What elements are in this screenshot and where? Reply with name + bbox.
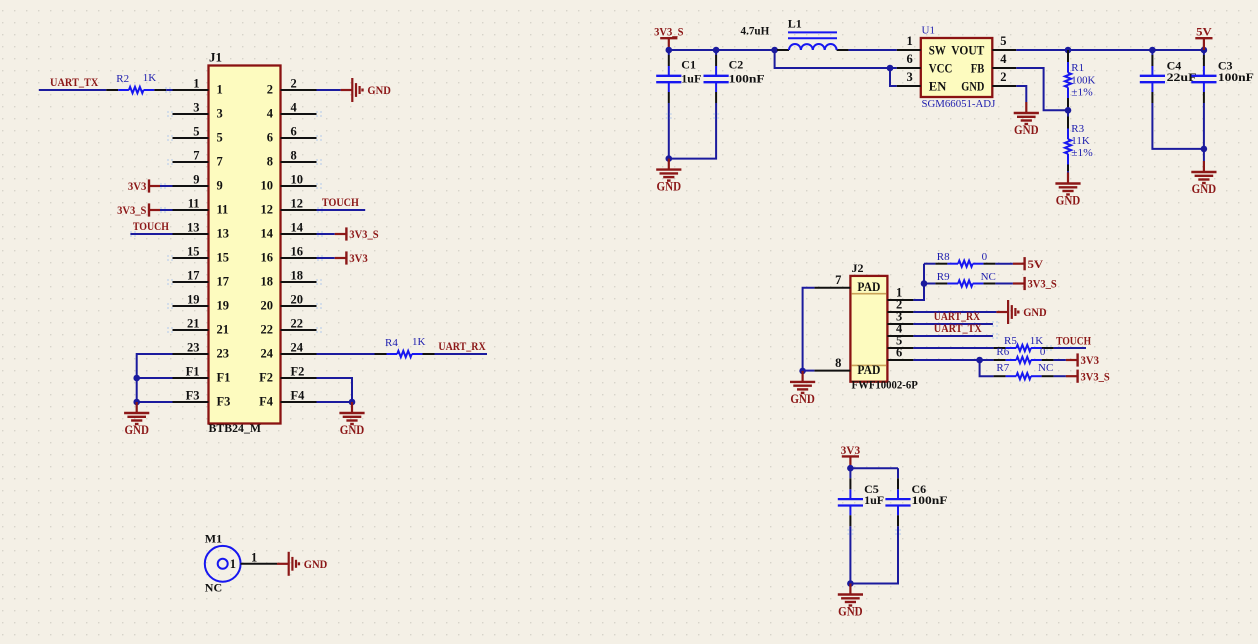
svg-text:GND: GND [1014,123,1039,137]
svg-text:GND: GND [790,392,815,406]
svg-text:R8: R8 [937,251,950,263]
svg-text:GND: GND [304,557,328,571]
svg-text:6: 6 [896,346,902,360]
wire R5 to TOUCH [1054,347,1086,349]
J1 pin F4 (right) [259,388,316,408]
J1 pin 21 (left) [173,316,230,336]
resistor R7 [994,373,1054,379]
capacitor C4 [1140,55,1165,103]
junction rail/C2 [713,47,720,54]
J1 pin 9 (left) [173,172,223,192]
wire R2 to J1 pin1 [166,89,172,91]
svg-text:R3: R3 [1071,123,1084,135]
svg-text:3V3: 3V3 [1081,353,1100,367]
wire C1 bottom to GND rail [668,103,670,159]
svg-text:18: 18 [291,268,304,282]
svg-text:1uF: 1uF [864,493,884,507]
wire J1 pin2 to GND [317,89,341,91]
capacitor C5 [838,478,863,526]
svg-text:R1: R1 [1071,62,1084,74]
svg-text:GND: GND [961,79,984,93]
svg-text:19: 19 [217,299,230,313]
svg-text:1: 1 [217,83,223,97]
svg-text:1uF: 1uF [681,72,701,86]
wire TOUCH to J1 pin13 [130,233,172,235]
svg-text:0: 0 [1040,346,1046,358]
J1 pin 7 (left) [173,148,223,168]
svg-text:16: 16 [261,251,274,265]
svg-text:NC: NC [1038,362,1053,374]
svg-text:3: 3 [907,70,913,84]
svg-text:FB: FB [971,61,985,75]
svg-text:UART_TX: UART_TX [50,75,99,89]
ground GND at J2 pin2 (bar style) [996,300,1047,324]
svg-text:R7: R7 [996,362,1009,374]
junction at F3 [133,399,140,406]
svg-text:2: 2 [1000,70,1006,84]
svg-text:NC: NC [205,580,222,594]
svg-text:23: 23 [217,347,230,361]
wire C3 bottom [1203,103,1205,161]
junction at F1 [133,375,140,382]
U1 pin 2 GND [961,70,1016,93]
svg-text:1: 1 [193,76,199,90]
ground GND below C3 [1191,161,1216,196]
svg-text:4.7uH: 4.7uH [741,24,770,38]
J2 pin 2 [887,298,913,312]
svg-text:M1: M1 [205,532,222,546]
svg-text:U1: U1 [922,25,935,37]
capacitor C2 [704,55,729,103]
connector J1 body [209,66,281,424]
svg-text:1: 1 [230,557,236,571]
J1 pin 13 (left) [173,220,230,240]
svg-text:±1%: ±1% [1071,147,1092,159]
ground GND at M1 (bar style) [277,552,328,576]
svg-text:PAD: PAD [857,363,880,377]
wire J2 pin5 to R5 [913,347,993,349]
wire J2 pin3 UART_RX [913,323,993,325]
svg-text:TOUCH: TOUCH [133,219,170,233]
svg-text:1K: 1K [412,336,426,348]
wire R9 to 3V3_S [995,283,1013,285]
power port 5V at R8 [1013,257,1044,271]
svg-text:F1: F1 [186,364,200,378]
power port 3V3 at J1 pin16 [335,251,368,265]
power port 3V3 at C5 [841,443,861,468]
capacitor C6 [885,478,910,526]
svg-text:F3: F3 [217,395,231,409]
svg-text:19: 19 [187,292,200,306]
U1 pin 6 VCC [897,52,953,75]
J1 pin 20 (right) [261,292,317,312]
svg-text:PAD: PAD [857,280,880,294]
capacitor C3 [1191,55,1216,103]
wire 3V3_S to J1 pin11 [160,209,173,211]
svg-text:3: 3 [193,100,199,114]
svg-text:21: 21 [187,316,200,330]
svg-text:6: 6 [291,124,297,138]
junction C3/C4 gnd node [1201,146,1208,153]
svg-text:F1: F1 [217,371,231,385]
svg-text:GND: GND [1023,305,1047,319]
svg-text:11: 11 [188,196,200,210]
U1 pin 4 FB [971,52,1017,75]
junction rail/5V [1201,47,1208,54]
junction C1/GND [666,155,673,162]
junction C5/GND [847,580,854,587]
resistor R6 [994,357,1054,363]
J2 pin 1 [887,286,913,300]
junction rail/C4 [1149,47,1156,54]
svg-text:±1%: ±1% [1071,86,1092,98]
svg-text:GND: GND [1192,182,1217,196]
J1 pin 4 (right) [267,100,317,120]
svg-text:22: 22 [291,316,304,330]
J2 pin 6 [887,346,913,360]
J2 pin 4 [887,322,913,336]
J1 pin F1 (left) [173,364,231,384]
wire C2 bottom elbow [669,103,716,159]
svg-text:2: 2 [267,83,273,97]
svg-text:TOUCH: TOUCH [1056,334,1092,348]
svg-text:20: 20 [291,292,304,306]
svg-text:17: 17 [187,268,200,282]
wire riser to R9 [924,283,935,285]
resistor R5 [994,345,1054,351]
J1 pin 14 (right) [261,220,317,240]
J1 pin 3 (left) [173,100,223,120]
svg-text:UART_RX: UART_RX [438,339,486,353]
svg-text:13: 13 [187,220,200,234]
J1 pin 19 (left) [173,292,230,312]
wire UART_TX to R2 [39,89,106,91]
resistor R1 [1065,50,1071,110]
ground GND below C5/C6 [838,584,863,619]
svg-text:F4: F4 [259,395,274,409]
svg-text:5: 5 [193,124,199,138]
svg-text:24: 24 [291,340,304,354]
J1 pin 10 (right) [261,172,317,192]
junction VCC branch [887,65,894,72]
svg-text:F2: F2 [259,371,273,385]
svg-text:9: 9 [193,172,199,186]
svg-text:1K: 1K [143,72,157,84]
wire C6 bottom elbow [850,526,898,583]
wire F3 stub [137,401,173,403]
svg-text:12: 12 [291,196,304,210]
svg-text:8: 8 [291,148,297,162]
wire J2 pin2 to GND [913,311,996,313]
junction R1/R3 feedback node [1065,107,1072,114]
J1 pin 15 (left) [173,244,230,264]
wire F4 stub [317,401,353,403]
wire R4 to UART_RX [435,353,488,355]
junction rail/C1 [666,47,673,54]
wire R6 to 3V3 [1054,359,1066,361]
ground GND at J1 pin2 (bar style) [341,78,392,102]
svg-text:3V3_S: 3V3_S [654,25,684,39]
wire J1 pin23/F1/F3 to GND [137,354,173,402]
svg-text:6: 6 [907,52,913,66]
svg-text:SGM66051-ADJ: SGM66051-ADJ [922,98,996,110]
svg-text:UART_TX: UART_TX [934,321,982,335]
svg-text:5: 5 [1000,34,1006,48]
wire R7 branch riser [980,360,994,376]
svg-text:1: 1 [907,34,913,48]
wire C5 bottom [849,526,851,583]
svg-text:VCC: VCC [929,61,953,75]
power port 5V (output rail) [1195,25,1212,50]
J1 pin 18 (right) [261,268,317,288]
svg-text:SW: SW [929,43,946,57]
inductor L1 [777,32,849,50]
svg-text:4: 4 [291,100,298,114]
svg-text:12: 12 [261,203,274,217]
svg-text:EN: EN [929,79,947,93]
svg-text:3V3: 3V3 [349,251,368,265]
svg-text:0: 0 [982,251,988,263]
power port 3V3_S at R7 [1066,369,1110,383]
svg-text:11: 11 [217,203,229,217]
wire 3V3 rail to C6 [850,467,898,469]
svg-text:7: 7 [217,155,223,169]
ground GND below R3 [1055,173,1080,208]
svg-text:3: 3 [217,107,223,121]
svg-text:C1: C1 [681,58,696,72]
J1 pin F3 (left) [173,388,231,408]
J1 pin 22 (right) [261,316,317,336]
svg-text:2: 2 [291,76,297,90]
svg-text:3V3_S: 3V3_S [1028,277,1058,291]
svg-text:14: 14 [261,227,274,241]
wire R1 to R3 [1067,110,1069,116]
wire J2 pin4 UART_TX [913,335,993,337]
wire 3V3 to J1 pin9 [160,185,173,187]
J2 pin 3 [887,310,913,324]
svg-text:J2: J2 [852,261,864,275]
power port 3V3_S at J1 pin11 [117,203,160,217]
capacitor C1 [656,55,681,103]
svg-text:14: 14 [291,220,304,234]
svg-text:18: 18 [261,275,274,289]
svg-text:11K: 11K [1071,135,1090,147]
svg-text:GND: GND [340,423,365,437]
ground GND below C1/C2 [656,159,681,194]
svg-text:24: 24 [261,347,274,361]
svg-text:10: 10 [261,179,274,193]
wire J2 pin6 to R6 [913,359,993,361]
wire C6 top elbow [897,468,899,478]
svg-text:3V3: 3V3 [841,443,861,457]
ground GND below J1 right [339,402,364,437]
wire J1 pin16 to 3V3 [317,257,335,259]
U1 pin 1 SW [897,34,946,57]
J1 pin 23 (left) [173,340,230,360]
svg-text:3V3_S: 3V3_S [1081,369,1111,383]
svg-text:100nF: 100nF [912,493,948,507]
ground GND at U1 pin2 [1014,102,1039,137]
J1 pin 2 (right) [267,76,317,96]
wire J2 pin8 stub [803,370,815,372]
junction rail/VCC branch [771,47,778,54]
svg-text:23: 23 [187,340,200,354]
power port 3V3 at R6 [1066,353,1099,367]
J1 pin 11 (left) [173,196,229,216]
svg-text:FWF10002-6P: FWF10002-6P [852,377,918,391]
svg-text:5V: 5V [1196,25,1212,39]
svg-text:20: 20 [261,299,274,313]
wire J1 pin24 to R4 [317,353,375,355]
svg-text:GND: GND [1056,194,1081,208]
svg-text:6: 6 [267,131,273,145]
svg-text:F3: F3 [186,388,200,402]
svg-text:100nF: 100nF [729,72,765,86]
power port 3V3_S at J1 pin14 [335,227,379,241]
wire L1 to U1 SW [849,49,897,51]
junction R6/R7 [976,357,983,364]
compile marks (decorative) [130,87,1052,535]
resistor R9 [935,280,995,286]
svg-text:4: 4 [1000,52,1007,66]
svg-text:R4: R4 [385,337,398,349]
wire U1 GND pin2 [1016,86,1026,102]
svg-text:R6: R6 [996,346,1009,358]
svg-text:3V3: 3V3 [128,179,147,193]
svg-text:15: 15 [217,251,230,265]
power port 3V3 at J1 pin9 [128,179,160,193]
ground GND below J1 left [124,402,149,437]
wire C5 top [849,468,851,478]
svg-text:BTB24_M: BTB24_M [209,421,262,435]
wire EN branch [890,68,897,86]
svg-text:100nF: 100nF [1218,70,1254,84]
wire R8 to 5V [995,263,1013,265]
wire F2 to F4 elbow [317,378,353,402]
J2 body divider bottom [852,364,886,366]
J1 pin 17 (left) [173,268,230,288]
svg-text:15: 15 [187,244,200,258]
junction at F4 [349,399,356,406]
J2 pin 7 PAD [814,273,880,294]
wire J2 pin1 riser to R8/R9 [913,264,924,300]
resistor R4 [375,351,435,357]
J2 pin 5 [887,334,913,348]
svg-text:GND: GND [657,180,682,194]
U1 pin 5 VOUT [951,34,1016,57]
wire C3 top [1203,50,1205,55]
resistor R2 [106,87,166,93]
svg-text:8: 8 [835,356,841,370]
svg-text:GND: GND [124,423,149,437]
M1 pin 1 [230,551,277,571]
J1 pin F2 (right) [259,364,316,384]
resistor R8 [935,261,995,267]
svg-text:9: 9 [217,179,223,193]
J1 pin 1 (left) [173,76,223,96]
svg-text:17: 17 [217,275,230,289]
wire C4 top [1151,50,1153,55]
svg-text:R2: R2 [116,73,129,85]
svg-text:F4: F4 [291,388,306,402]
svg-text:L1: L1 [788,17,802,31]
svg-text:C2: C2 [729,58,744,72]
wire riser to R8 [924,263,935,265]
power port 3V3_S at R9 [1013,277,1057,291]
wire J1 pin12 TOUCH [317,209,366,211]
J1 pin 5 (left) [173,124,223,144]
J1 pin 8 (right) [267,148,317,168]
svg-text:3V3_S: 3V3_S [117,203,147,217]
op-amp U1 body (SGM66051-ADJ regulator) [921,38,993,97]
wire C2 top [715,50,717,55]
svg-text:J1: J1 [209,50,222,65]
svg-text:1: 1 [251,551,257,565]
power port 3V3_S (input rail) [654,25,684,50]
wire R7 to 3V3_S [1054,375,1066,377]
svg-text:16: 16 [291,244,304,258]
wire C4 bottom elbow [1152,103,1204,149]
svg-text:F2: F2 [291,364,305,378]
svg-text:NC: NC [981,271,996,283]
svg-text:R9: R9 [937,271,950,283]
wire FB to divider [1016,68,1068,110]
J1 pin 24 (right) [261,340,317,360]
svg-text:13: 13 [217,227,230,241]
junction rail/R1 [1065,47,1072,54]
svg-text:3V3_S: 3V3_S [349,227,379,241]
wire R3 to GND [1067,171,1069,173]
J2 body divider top [852,293,886,295]
mounting hole M1 [205,546,241,582]
svg-text:GND: GND [367,83,391,97]
wire input rail 3V3_S [669,49,789,51]
svg-text:TOUCH: TOUCH [322,195,360,209]
svg-text:10: 10 [291,172,304,186]
wire J2 pin7/pin8 to GND riser [803,288,815,371]
J2 pin 8 PAD [814,356,880,377]
junction R8/R9 riser [921,280,928,287]
wire VCC/EN branch [775,50,897,68]
svg-text:7: 7 [193,148,199,162]
svg-text:5V: 5V [1028,257,1044,271]
junction J2 pin8/GND [799,368,806,375]
U1 pin 3 EN [897,70,947,93]
wire C1 top [668,50,670,55]
svg-text:8: 8 [267,155,273,169]
svg-text:7: 7 [835,273,841,287]
J1 pin 6 (right) [267,124,317,144]
wire F1 stub [137,377,173,379]
ground GND below J2 [790,371,815,406]
J1 pin 12 (right) [261,196,317,216]
J1 pin 16 (right) [261,244,317,264]
svg-text:22: 22 [261,323,274,337]
wire VOUT 5V rail [1016,49,1204,51]
junction 3V3/C5 [847,465,854,472]
wire J1 pin14 to 3V3_S [317,233,335,235]
svg-text:4: 4 [267,107,274,121]
resistor R3 [1065,117,1071,177]
svg-text:5: 5 [217,131,223,145]
svg-text:VOUT: VOUT [951,43,985,57]
svg-text:100K: 100K [1071,75,1095,87]
svg-text:21: 21 [217,323,230,337]
svg-text:GND: GND [838,605,863,619]
connector J2 body [850,276,887,382]
